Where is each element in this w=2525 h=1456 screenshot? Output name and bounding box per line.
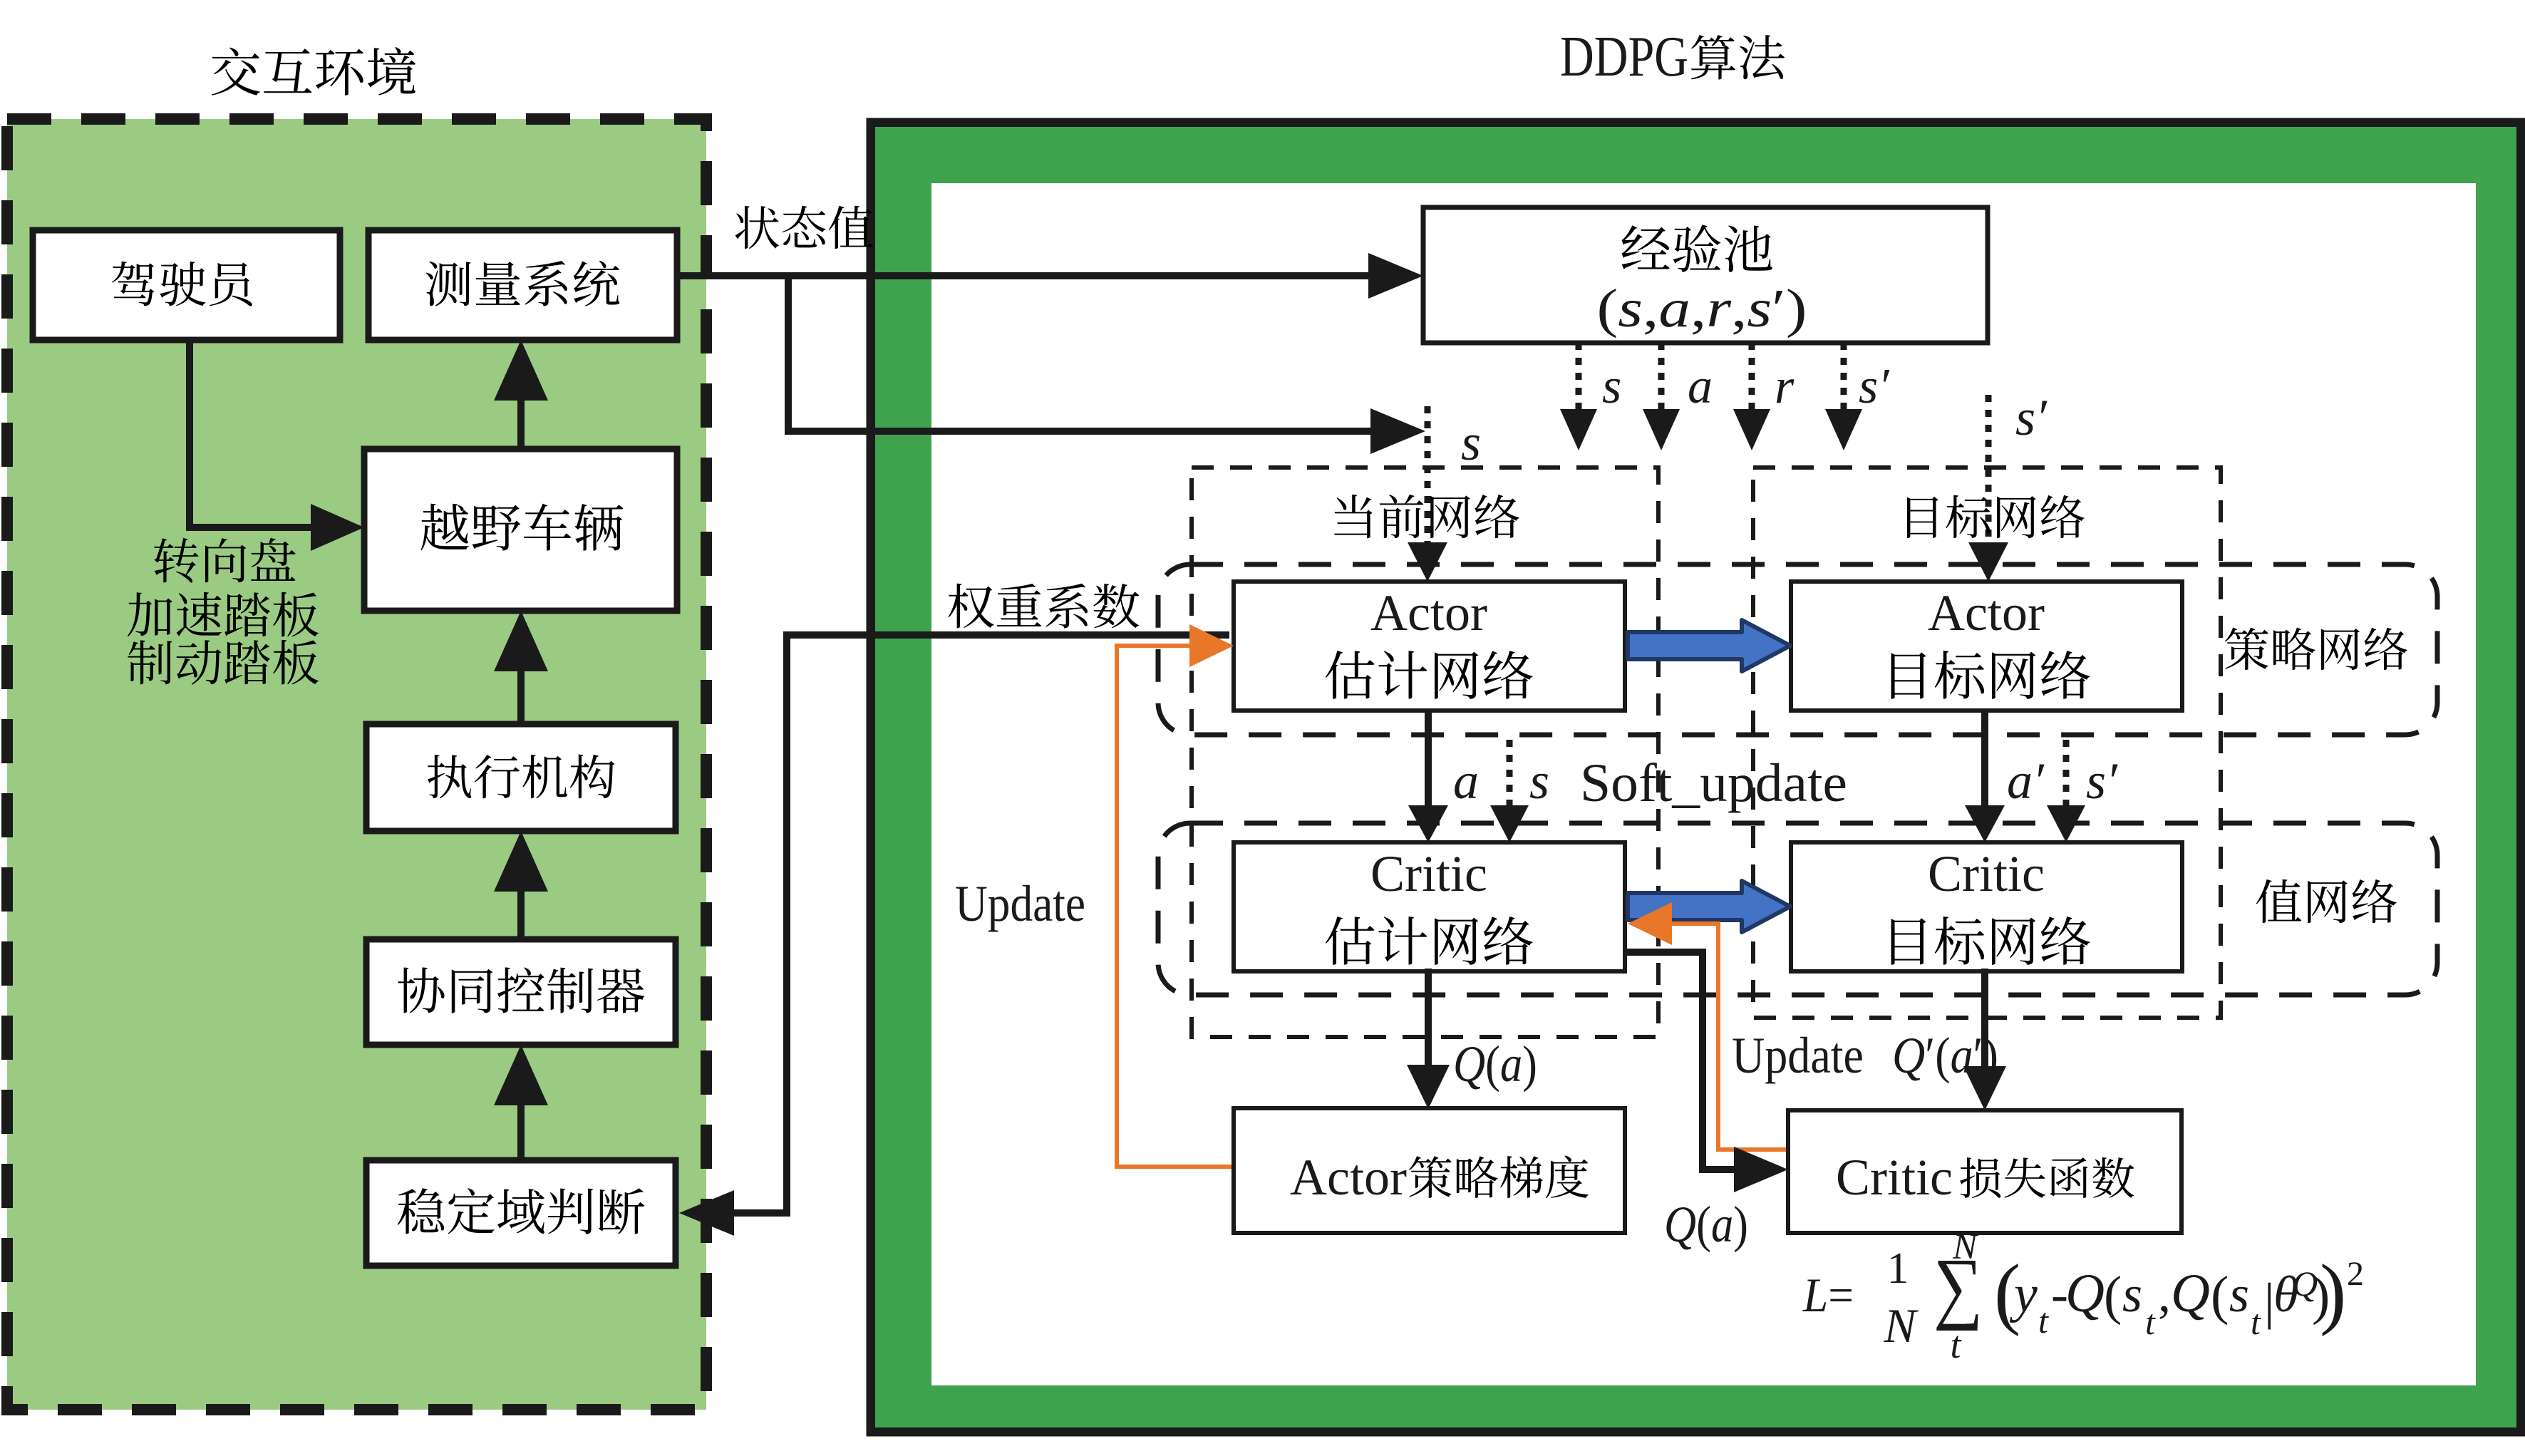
svg-text:a′: a′	[2007, 753, 2045, 810]
svg-text:a: a	[1453, 753, 1479, 810]
svg-text:2: 2	[2347, 1255, 2364, 1293]
svg-text:,: ,	[2158, 1266, 2171, 1323]
svg-text:Actor: Actor	[1290, 1149, 1407, 1206]
svg-text:Update: Update	[1732, 1027, 1864, 1084]
svg-text:s′: s′	[1859, 359, 1890, 414]
svg-text:(: (	[2211, 1266, 2229, 1326]
svg-text:s: s	[1529, 753, 1549, 810]
svg-text:s: s	[2122, 1266, 2142, 1323]
svg-text:DDPG: DDPG	[1560, 26, 1688, 88]
svg-text:s′: s′	[2086, 753, 2118, 810]
svg-text:Update: Update	[955, 875, 1085, 932]
svg-text:s: s	[1602, 359, 1621, 414]
svg-text:s: s	[1461, 414, 1481, 471]
svg-text:L=: L=	[1802, 1268, 1854, 1322]
svg-text:Critic: Critic	[1836, 1149, 1953, 1206]
svg-text:(s,a,r,s′): (s,a,r,s′)	[1597, 279, 1807, 339]
svg-text:Critic: Critic	[1928, 845, 2045, 902]
svg-text:N: N	[1883, 1298, 1919, 1353]
svg-text:t: t	[2038, 1301, 2049, 1341]
svg-text:t: t	[2145, 1302, 2156, 1342]
svg-text:Q′(a′): Q′(a′)	[1892, 1027, 1998, 1084]
svg-text:Q(a): Q(a)	[1453, 1036, 1537, 1093]
svg-text:s: s	[2229, 1266, 2249, 1323]
svg-text:t: t	[2251, 1302, 2261, 1342]
svg-text:Q(a): Q(a)	[1664, 1196, 1748, 1253]
svg-text:): )	[2320, 1249, 2346, 1337]
svg-text:Q: Q	[2065, 1264, 2105, 1323]
svg-text:r: r	[1775, 359, 1795, 414]
svg-text:Critic: Critic	[1370, 845, 1487, 902]
svg-text:1: 1	[1887, 1244, 1909, 1293]
svg-text:N: N	[1952, 1227, 1979, 1267]
svg-text:Actor: Actor	[1928, 584, 2045, 641]
svg-text:t: t	[1950, 1323, 1962, 1366]
svg-text:a: a	[1688, 359, 1713, 414]
svg-text:Soft_update: Soft_update	[1580, 753, 1847, 813]
svg-text:s′: s′	[2015, 389, 2048, 446]
svg-text:Q: Q	[2171, 1264, 2210, 1323]
svg-text:Actor: Actor	[1370, 584, 1487, 641]
svg-text:(: (	[2104, 1266, 2122, 1326]
